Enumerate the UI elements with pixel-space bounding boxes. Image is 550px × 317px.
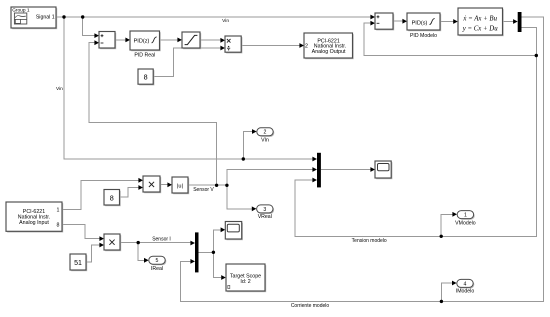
svg-text:VModelo: VModelo bbox=[455, 220, 476, 226]
svg-text:y = Cx + Du: y = Cx + Du bbox=[462, 26, 498, 33]
svg-text:Tension modelo: Tension modelo bbox=[352, 238, 387, 244]
svg-text:1: 1 bbox=[57, 208, 60, 214]
svg-text:Analog Output: Analog Output bbox=[312, 49, 346, 55]
svg-text:PID Modelo: PID Modelo bbox=[410, 33, 437, 39]
svg-text:PID(z): PID(z) bbox=[134, 39, 150, 45]
svg-text:Sensor V: Sensor V bbox=[193, 187, 214, 193]
svg-text:Vin: Vin bbox=[222, 18, 229, 24]
svg-text:PID Real: PID Real bbox=[134, 53, 155, 59]
svg-text:Vin: Vin bbox=[56, 86, 63, 92]
svg-text:8: 8 bbox=[144, 73, 148, 82]
svg-text:Sensor I: Sensor I bbox=[152, 236, 171, 242]
svg-text:IModelo: IModelo bbox=[456, 289, 475, 295]
svg-text:Id: 2: Id: 2 bbox=[240, 279, 250, 285]
svg-text:Analog Input: Analog Input bbox=[19, 220, 49, 226]
svg-text:2: 2 bbox=[264, 130, 267, 136]
svg-text:|u|: |u| bbox=[177, 184, 183, 190]
svg-text:ẋ = Ax + Bu: ẋ = Ax + Bu bbox=[462, 16, 497, 23]
svg-text:8: 8 bbox=[110, 194, 114, 203]
svg-text:2: 2 bbox=[305, 44, 308, 50]
svg-text:51: 51 bbox=[74, 260, 82, 267]
svg-text:1: 1 bbox=[464, 213, 467, 219]
svg-text:VIn: VIn bbox=[261, 138, 269, 144]
svg-text:5: 5 bbox=[156, 258, 159, 264]
svg-text:VReal: VReal bbox=[258, 214, 272, 220]
svg-text:3: 3 bbox=[263, 207, 266, 213]
svg-text:4: 4 bbox=[464, 281, 467, 287]
svg-text:PID(s): PID(s) bbox=[412, 20, 428, 26]
svg-text:8: 8 bbox=[57, 223, 60, 229]
svg-text:Corriente modelo: Corriente modelo bbox=[291, 303, 330, 309]
svg-text:Signal 1: Signal 1 bbox=[36, 15, 55, 21]
svg-text:IReal: IReal bbox=[151, 266, 163, 272]
